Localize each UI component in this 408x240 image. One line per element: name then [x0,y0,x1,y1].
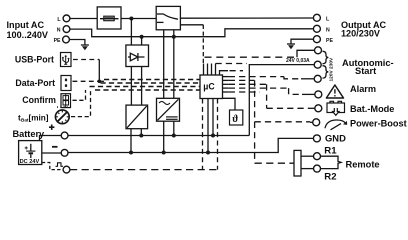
USB symbol [62,55,69,64]
dashed uC pin right 1 to T6 [223,76,229,78]
dashed remote line lower [70,169,218,171]
svg-text:Data-Port: Data-Port [15,78,55,88]
wire timer dashed [71,90,91,117]
svg-text:Remote: Remote [346,160,380,170]
dashed line y57 [205,56,295,58]
svg-text:Bat.-Mode: Bat.-Mode [350,104,394,114]
inverter AC tilde [159,101,170,104]
svg-text:120V 230V: 120V 230V [329,57,335,82]
USB port box [61,53,72,67]
wire uC to upper bus [212,99,214,136]
terminal battery minus [61,149,68,156]
wire output PE to ground [291,39,313,44]
confirm symbol [63,94,69,107]
battery box [19,141,42,165]
node L junction [129,17,133,21]
node lowbus DCDC [129,151,133,155]
terminal T6 autonomic [314,75,321,82]
temperature sensor box [230,110,243,125]
dashed bus left y90 [95,89,200,91]
wire uC to lower bus [207,99,209,153]
wire ports to bus [99,80,104,82]
uC top pins [204,64,216,76]
svg-text:100..240V: 100..240V [7,30,48,40]
node lowbus inverter [162,151,166,155]
dashed battery to pulse [42,163,63,170]
svg-text:Confirm: Confirm [22,95,56,105]
output terminal L [313,14,320,21]
svg-text:µC: µC [203,82,215,92]
wire switch to output L [180,17,313,19]
wire DCDC to upper bus [140,129,142,136]
node N inverter junction [172,35,176,39]
timer knob [55,106,69,124]
wire T4 feed [297,50,314,57]
svg-text:Start: Start [355,66,376,76]
bracket 230V [323,51,329,63]
dashed ctrl switch line [202,25,204,64]
DC-DC converter box [126,105,148,129]
dashed bus left y86.5 [90,86,201,88]
svg-text:R2: R2 [324,172,336,183]
wire L junction to rectifier [130,19,132,46]
label Output AC 120/230V [341,20,387,39]
power boost icon [325,120,347,130]
wire N junction to rectifier [141,37,143,45]
rectifier D1 box [126,45,149,67]
svg-text:Alarm: Alarm [350,84,376,94]
switch contact symbol [157,14,178,22]
wire confirm dashed [73,90,86,100]
bracket 120V [323,66,329,78]
terminal battery plus [61,132,68,139]
label Autonomic-Start [342,58,394,76]
svg-text:Power-Boost: Power-Boost [350,119,407,129]
wire block to R1 [301,155,314,157]
dashed vert remote drop [254,122,256,163]
dashed line y63.5 [216,63,248,65]
wire switch to inverter N [173,30,175,99]
wire USB dashed [73,59,99,61]
svg-text:Battery: Battery [13,129,46,139]
data port box [61,76,71,91]
ground output PE [287,44,295,49]
wire inverter to upper bus [173,121,175,136]
inverter DC bars [166,117,178,119]
svg-text:ϑ: ϑ [232,114,238,125]
upper DC bus 24V [68,135,249,137]
node bus inverter [172,134,176,138]
battery cell symbol [25,144,36,158]
svg-text:N: N [57,28,61,34]
output terminal N [313,25,320,32]
wire data port [73,80,100,82]
wire 24V riser to T5 [249,65,314,136]
label Input AC 100..240V [7,20,48,40]
svg-text:GND: GND [325,132,346,143]
wire uC remote dashed [217,99,219,170]
terminal GND [313,135,320,142]
wire uC to sensor [223,98,236,110]
label t bat min [18,114,49,123]
node lowbus uC [206,151,210,155]
node N junction rectifier [140,35,144,39]
terminal R2 [314,165,321,172]
terminal Alarm [315,91,322,98]
ground input PE [81,45,89,50]
fuse symbol inside filter [100,16,119,21]
node ports junction [98,80,102,84]
dashed uC pin right 3 to BatMode [223,83,229,85]
wire switch alt stub [180,24,203,26]
inverter diagonal [158,99,179,120]
svg-text:USB-Port: USB-Port [15,54,54,64]
svg-text:PE: PE [326,38,333,44]
filter F1 box [97,7,121,29]
svg-text:120/230V: 120/230V [341,29,380,39]
dashed uC pin right 2 to PowerBoost [223,79,229,81]
wire battery box to plus [40,136,62,141]
terminal PE input [54,36,70,44]
battery plus sign [49,125,54,130]
svg-text:DC 24V: DC 24V [20,159,40,165]
svg-text:24V 0,03A: 24V 0,03A [286,58,310,64]
wire battery box to minus [42,152,61,154]
wire N input run [70,29,313,37]
battery minus sign [52,146,58,148]
remote jumper block [294,150,301,176]
terminal PowerBoost [313,119,320,126]
wire filter to switch [121,18,157,20]
terminal L input [57,15,70,23]
svg-text:R1: R1 [324,145,337,156]
terminal BatMode [315,105,322,112]
svg-text:N: N [326,28,330,34]
remote bracket [321,156,342,168]
dashed uC pin right 4 to Alarm [223,87,229,89]
switch S1 box [156,6,180,29]
wire DCDC to lower bus [130,129,132,153]
data port pins [65,79,67,87]
wire inverter to lower bus [163,121,165,152]
lower DC bus GND [68,138,313,152]
dashed bus left y83 [101,82,201,84]
wire rectifier to DCDC left [130,66,132,105]
wire block to R2 [301,168,314,170]
terminal T4 autonomic [315,47,322,54]
dashed line y70.5 [220,71,229,75]
svg-text:[min]: [min] [29,114,49,123]
terminal T5 24V [314,61,321,68]
dashed uC pin right 5 [223,91,229,93]
output terminal PE [313,36,320,43]
terminal R1 [314,153,321,160]
wire USB down [98,60,100,82]
dashed bus left y79.5 [104,79,200,81]
DCDC diagonal [127,106,147,128]
wire uC aux dashed [202,99,204,170]
dashed remote line upper [255,162,294,164]
terminal N input [57,26,70,34]
wire L input to filter [70,18,97,20]
diode symbol [128,53,145,61]
confirm box [61,94,71,108]
node bus DCDC [139,134,143,138]
pulse trigger symbol [56,163,64,167]
microcontroller uC box [200,75,223,99]
terminal pulse [63,166,70,173]
node bus uC supply [211,134,215,138]
wire switch to inverter L [163,30,165,99]
bat mode icon [327,101,345,115]
svg-text:PE: PE [54,38,61,44]
wire rectifier to DCDC right [141,66,143,105]
alarm warning triangle [326,85,343,98]
wire PE input [70,40,85,46]
svg-text:Input AC: Input AC [7,20,45,30]
inverter charger box [157,98,180,121]
